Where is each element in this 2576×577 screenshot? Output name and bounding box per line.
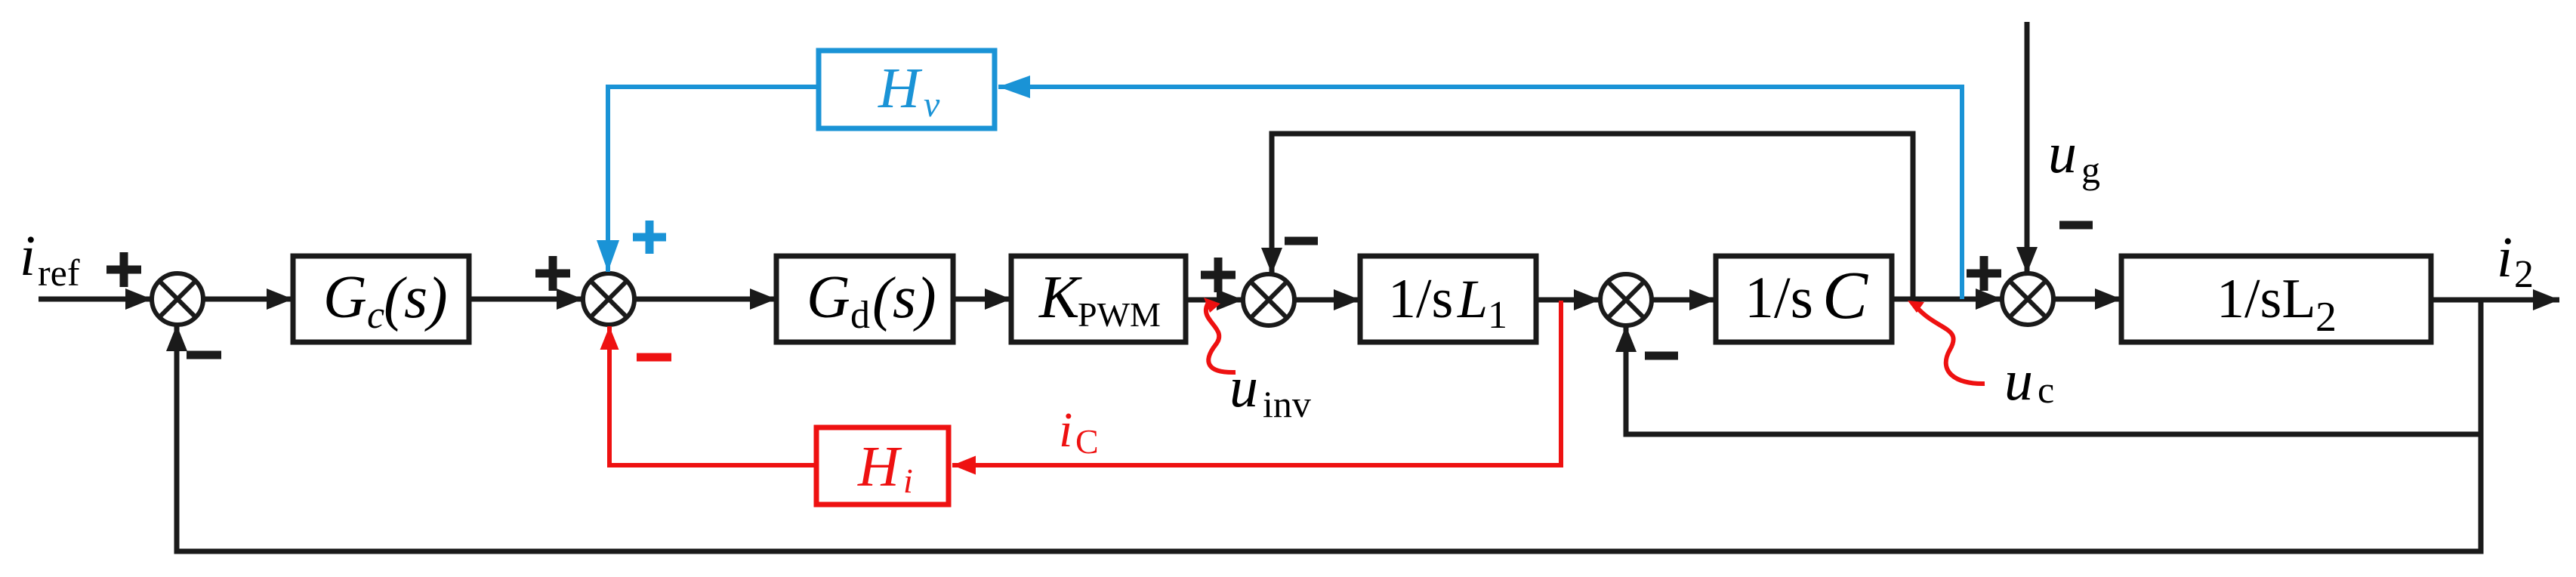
- label u_g: [2048, 122, 2100, 191]
- svg-text:PWM: PWM: [1078, 295, 1161, 334]
- block KPWM: [1011, 256, 1186, 342]
- red wire Hi to S2: [609, 326, 816, 465]
- blue wire Hv to S2: [608, 87, 819, 272]
- svg-text:s: s: [893, 264, 916, 331]
- red wire iC pickup to Hi: [952, 301, 1561, 465]
- label 1/sL2: [2217, 268, 2337, 341]
- minus sign below S1: [187, 351, 221, 359]
- wire Gd to Kpwm: [953, 297, 1011, 302]
- svg-text:G: G: [807, 264, 850, 331]
- wire L1 to summing junction S4: [1536, 298, 1600, 303]
- svg-text:): ): [424, 266, 448, 332]
- label i2: [2497, 226, 2534, 296]
- label Gd(s): [807, 264, 936, 337]
- wire S5 to L2: [2053, 297, 2121, 302]
- wire S4 to C: [1652, 298, 1716, 303]
- red callout squiggle uc: [1914, 304, 1985, 384]
- svg-text:c: c: [2038, 369, 2054, 411]
- label Hi: [857, 435, 913, 500]
- block 1/sL2: [2121, 256, 2431, 342]
- svg-text:C: C: [1075, 422, 1099, 461]
- plus sign at S1 input: [106, 252, 141, 287]
- svg-text:1: 1: [1488, 294, 1507, 337]
- red minus sign at S2 bottom: [637, 353, 671, 362]
- svg-text:i: i: [1059, 403, 1072, 458]
- wire output i2: [2431, 298, 2559, 303]
- svg-text:u: u: [2048, 122, 2077, 185]
- svg-text:g: g: [2081, 149, 2100, 191]
- wire Gc to summing junction S2: [469, 297, 583, 302]
- svg-text:i: i: [20, 224, 35, 288]
- svg-text:L: L: [1457, 269, 1488, 329]
- block Gd(s): [776, 256, 953, 342]
- wire S2 to Gd: [634, 297, 776, 302]
- blue wire uc pickup to Hv: [998, 87, 1962, 299]
- minus sign below-right of S4: [1645, 352, 1678, 360]
- plus sign before S3: [1201, 258, 1236, 292]
- svg-text:1/s: 1/s: [1745, 264, 1813, 330]
- label Hv: [878, 57, 940, 125]
- svg-text:1/s: 1/s: [1388, 268, 1453, 330]
- block 1/sL1: [1360, 256, 1536, 342]
- minus sign above S3: [1285, 237, 1318, 245]
- summing junction S4: [1600, 274, 1652, 326]
- svg-text:K: K: [1038, 264, 1082, 331]
- plus sign before S5: [1967, 256, 2001, 291]
- svg-text:ref: ref: [38, 251, 80, 294]
- svg-text:C: C: [1822, 258, 1868, 333]
- svg-text:i: i: [2497, 226, 2513, 289]
- wire S1 to Gc: [203, 297, 293, 302]
- svg-text:2: 2: [2514, 253, 2534, 296]
- minus sign for u_g: [2059, 221, 2093, 230]
- svg-text:d: d: [850, 294, 870, 337]
- svg-text:G: G: [323, 264, 367, 331]
- svg-text:2: 2: [2315, 294, 2337, 341]
- svg-text:s: s: [404, 264, 427, 331]
- svg-text:i: i: [903, 461, 913, 500]
- label i_C: [1059, 403, 1099, 461]
- summing junction S2: [583, 273, 634, 325]
- summing junction S3: [1243, 274, 1294, 326]
- svg-text:H: H: [857, 435, 902, 498]
- label u_inv: [1229, 356, 1311, 425]
- label Gc(s): [323, 264, 448, 337]
- svg-text:): ): [913, 266, 936, 332]
- label 1/sC: [1745, 258, 1868, 333]
- block Hv: [819, 51, 995, 128]
- red callout squiggle uc tip: [1908, 301, 1924, 313]
- wire branch i2 feedback to S4: [1626, 326, 2481, 434]
- svg-text:u: u: [1229, 356, 1258, 419]
- svg-text:H: H: [878, 57, 923, 120]
- summing junction S1: [152, 273, 203, 325]
- label KPWM: [1038, 264, 1161, 334]
- wire top feedback uc to S3: [1272, 134, 1913, 299]
- blue plus sign at S2 top: [633, 221, 666, 254]
- label u_c: [2004, 349, 2054, 412]
- block 1/sC: [1716, 256, 1892, 342]
- label i_ref: [20, 224, 80, 294]
- summing junction S5: [2002, 273, 2053, 325]
- svg-text:c: c: [367, 294, 384, 337]
- wire disturbance u_g into S5: [2025, 22, 2030, 273]
- wire inner feedback i2 to S4: [177, 300, 2481, 551]
- svg-text:1/sL: 1/sL: [2217, 268, 2316, 330]
- block Hi: [816, 427, 949, 504]
- wire input i_ref to summing junction S1: [39, 297, 152, 302]
- svg-text:u: u: [2004, 349, 2033, 412]
- red callout squiggle uinv: [1206, 301, 1236, 372]
- wire C to summing junction S5: [1892, 297, 2002, 302]
- wire Kpwm to summing junction S3: [1186, 298, 1243, 303]
- label 1/sL1: [1388, 268, 1507, 337]
- wire S3 to L1: [1294, 298, 1360, 303]
- svg-text:v: v: [924, 85, 940, 125]
- svg-text:inv: inv: [1263, 383, 1311, 425]
- red callout squiggle uinv tip: [1204, 298, 1220, 313]
- block Gc(s): [293, 256, 469, 342]
- plus sign at S2 left input: [535, 256, 570, 291]
